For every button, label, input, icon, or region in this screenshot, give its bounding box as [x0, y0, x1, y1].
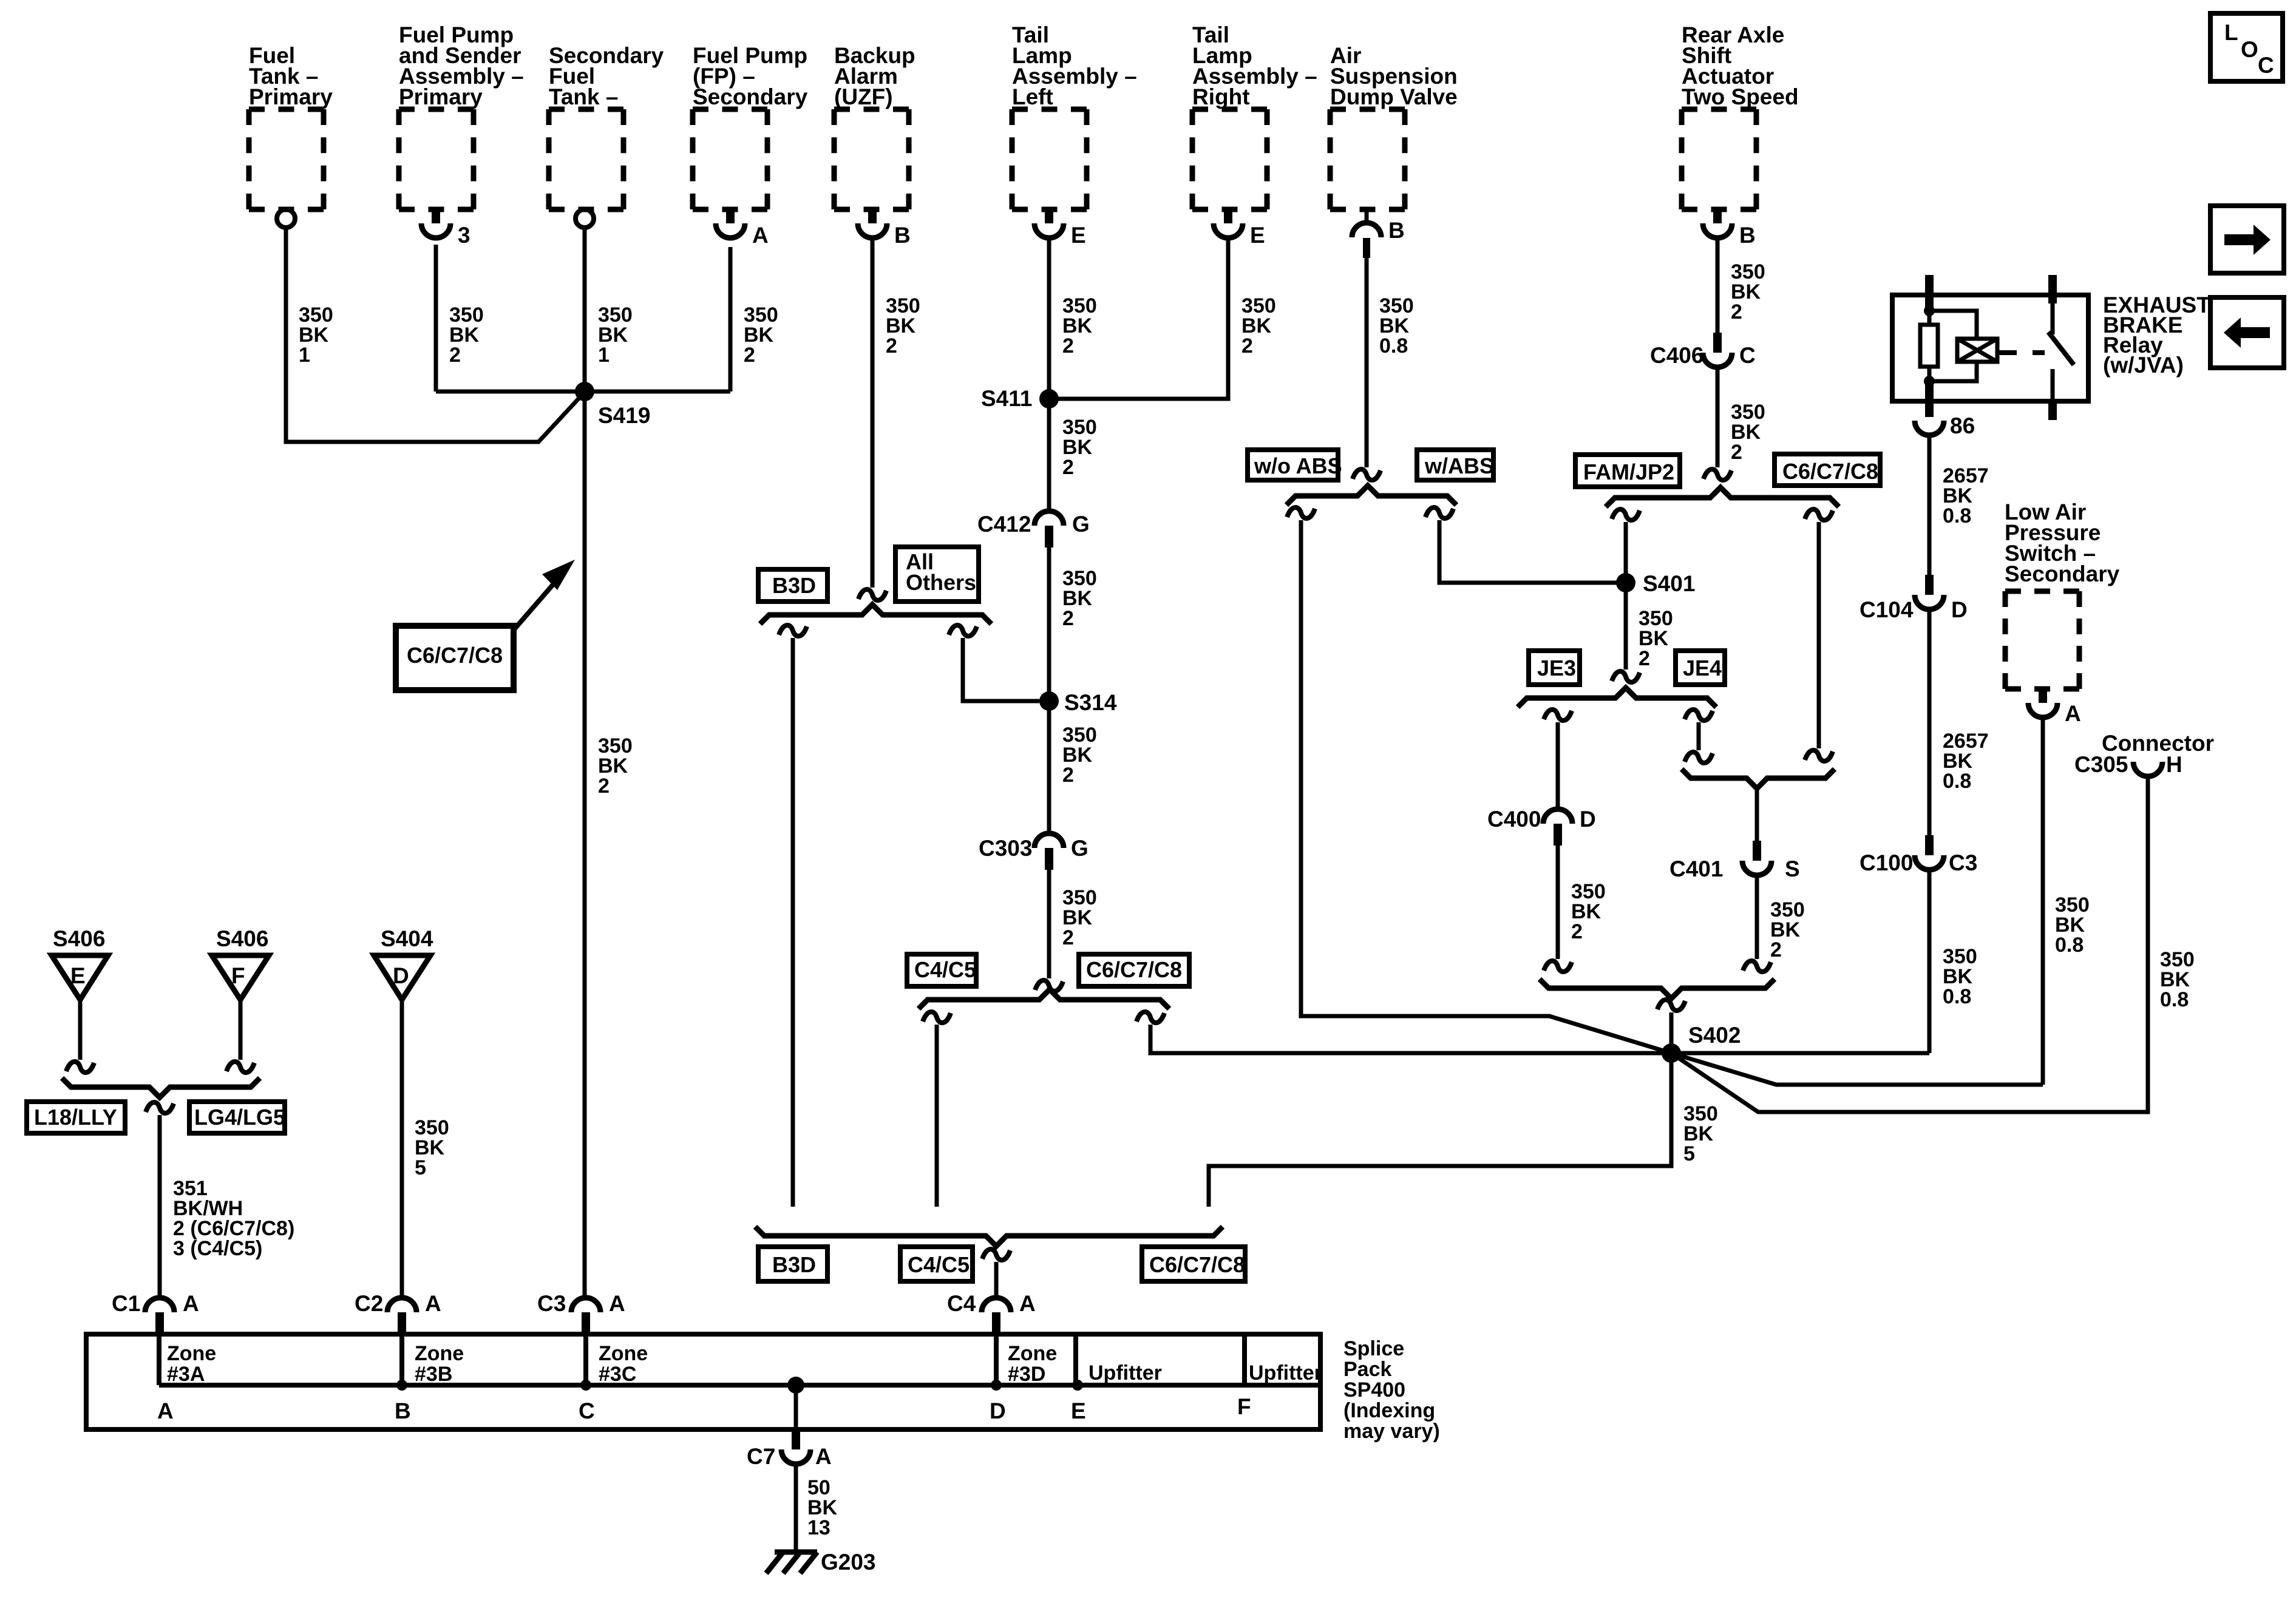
svg-text:0.8: 0.8: [1943, 985, 1971, 1008]
svg-text:2: 2: [1731, 300, 1742, 324]
wire 350 BK 0.8 air dump valve: [1365, 258, 1369, 467]
svg-text:C2: C2: [355, 1291, 383, 1316]
svg-text:A: A: [2065, 701, 2081, 726]
pin B of Backup Alarm (UZF): [868, 209, 877, 223]
svg-text:C6/C7/C8: C6/C7/C8: [407, 643, 503, 668]
splice S419: [575, 382, 594, 401]
squiggle C6/C7/C8 branch: [1136, 1012, 1164, 1023]
wire to C4: [994, 1262, 999, 1299]
triangle S406 E: [52, 955, 108, 1000]
wire S314 to C303: [1047, 701, 1051, 833]
inline connector C4: [982, 1298, 1011, 1312]
pin of Fuel Tank - Primary: [277, 209, 295, 228]
squiggle C4 feed: [982, 1249, 1010, 1260]
splice pack partition: [157, 1334, 161, 1385]
pin of Secondary Fuel Tank: [576, 209, 594, 228]
squiggle L18 branch: [146, 1102, 174, 1113]
svg-text:E: E: [1071, 1398, 1086, 1423]
wire FAM/JP2 branch: [1624, 522, 1628, 670]
svg-text:w/ABS: w/ABS: [1424, 453, 1494, 478]
svg-text:E: E: [70, 963, 86, 988]
svg-text:2: 2: [1571, 920, 1583, 943]
svg-text:C4/C5: C4/C5: [914, 957, 976, 982]
svg-text:#3C: #3C: [599, 1363, 636, 1386]
relay resistor: [1927, 311, 1932, 325]
wire C104 to C100: [1927, 609, 1932, 835]
relay EXHAUST BRAKE (w/JVA) box: [1892, 295, 2088, 401]
svg-text:C303: C303: [979, 836, 1032, 861]
pin B of Air Suspension Dump Valve: [1365, 209, 1369, 223]
svg-text:C: C: [2258, 53, 2274, 78]
splice S401: [1616, 573, 1635, 592]
svg-text:0.8: 0.8: [1943, 770, 1971, 793]
svg-text:C3: C3: [537, 1291, 566, 1316]
svg-text:Tank –: Tank –: [549, 84, 618, 109]
relay bottom-left pin: [1925, 381, 1934, 417]
brace merge S406: [62, 1078, 260, 1097]
svg-text:3: 3: [458, 223, 470, 248]
svg-text:2: 2: [598, 775, 610, 798]
wire C406 down: [1716, 367, 1720, 467]
svg-text:2: 2: [1731, 441, 1742, 464]
inline connector C412: [1034, 511, 1064, 526]
svg-text:JE4: JE4: [1683, 656, 1722, 680]
svg-text:C412: C412: [977, 512, 1031, 537]
left-arrow box: [2210, 297, 2284, 368]
svg-text:D: D: [990, 1398, 1006, 1423]
svg-text:2: 2: [1639, 647, 1650, 670]
wire 350 BK 1 fuel tank primary: [286, 228, 585, 442]
inline connector C406: [1713, 333, 1722, 353]
splice pack partition: [1242, 1334, 1247, 1385]
svg-text:Zone: Zone: [1008, 1342, 1057, 1365]
brace split JE3/JE4: [1518, 688, 1716, 707]
wire 350 BK 5 from S402: [1209, 1053, 1671, 1207]
wire 350 BK 2 rear axle: [1716, 239, 1720, 333]
svg-text:S314: S314: [1064, 690, 1117, 715]
inline connector C2: [387, 1298, 416, 1312]
svg-text:A: A: [157, 1398, 174, 1423]
svg-text:A: A: [815, 1444, 832, 1469]
brace merge JE4 + C6/C7/C8: [1682, 769, 1835, 788]
pin B of Rear Axle Shift Actuator Two Speed: [1713, 209, 1722, 223]
inline connector C401: [1753, 841, 1761, 861]
connector C305: [2133, 762, 2162, 776]
wire end squiggle: [1685, 752, 1713, 763]
inline connector C303: [1034, 833, 1064, 848]
connector box Air Suspension Dump Valve: [1330, 107, 1405, 112]
svg-text:C: C: [1739, 343, 1756, 368]
relay coil node bottom: [1924, 376, 1935, 387]
svg-text:Primary: Primary: [249, 84, 333, 109]
svg-text:C7: C7: [747, 1444, 775, 1469]
squiggle S402 feed: [1657, 1000, 1685, 1011]
svg-text:B: B: [1739, 223, 1756, 248]
svg-text:Upfitter: Upfitter: [1089, 1361, 1162, 1385]
relay coil loop: [1929, 311, 1977, 339]
triangle S404 D: [374, 955, 430, 1000]
svg-text:2: 2: [1062, 456, 1074, 479]
svg-text:C1: C1: [112, 1291, 140, 1316]
svg-text:B: B: [894, 223, 911, 248]
pin A of Fuel Pump (FP) - Secondary: [726, 209, 735, 223]
svg-text:S411: S411: [981, 386, 1032, 411]
relay dashed link: [1999, 350, 2045, 355]
svg-text:S406: S406: [216, 926, 268, 951]
svg-text:A: A: [609, 1291, 625, 1316]
wire 50 BK 13: [794, 1464, 798, 1550]
svg-text:Others: Others: [906, 570, 976, 595]
LG4/LG5 option box: [189, 1102, 285, 1133]
wire C7 drop: [794, 1385, 798, 1429]
squiggle JE4 branch: [1685, 710, 1713, 720]
svg-text:B3D: B3D: [772, 1252, 816, 1277]
svg-text:C: C: [579, 1398, 595, 1423]
svg-text:E: E: [1071, 223, 1086, 248]
svg-text:2: 2: [1062, 334, 1074, 358]
C4/C5 option box: [907, 954, 976, 986]
svg-text:O: O: [2241, 37, 2258, 62]
wire w/o ABS branch: [1301, 520, 1671, 1053]
svg-text:C406: C406: [1650, 343, 1703, 368]
triangle S406 F: [212, 955, 269, 1000]
svg-text:0.8: 0.8: [2055, 934, 2084, 957]
wire All-Others branch: [963, 638, 1039, 701]
svg-text:FAM/JP2: FAM/JP2: [1583, 459, 1674, 484]
wire to S402: [1669, 1012, 1674, 1053]
connector box Tail Lamp Assembly - Right: [1192, 107, 1267, 112]
svg-text:C100: C100: [1860, 850, 1913, 875]
wire S406 F: [239, 1000, 243, 1060]
svg-text:C4/C5: C4/C5: [908, 1252, 970, 1277]
svg-text:Two Speed: Two Speed: [1682, 84, 1799, 109]
svg-text:C6/C7/C8: C6/C7/C8: [1782, 459, 1878, 484]
connector box Fuel Pump (FP) - Secondary: [693, 107, 767, 112]
svg-text:1: 1: [299, 344, 310, 367]
wire C4/C5 branch: [935, 1025, 939, 1207]
svg-text:(UZF): (UZF): [834, 84, 893, 109]
svg-text:A: A: [425, 1291, 441, 1316]
C6/C7/C8 option box: [1775, 454, 1880, 486]
svg-text:S406: S406: [53, 926, 105, 951]
wire S402 to C305: [1671, 1053, 2148, 1112]
pin 3 of Fuel Pump and Sender Assembly - Primary: [432, 209, 440, 223]
svg-text:Pack: Pack: [1343, 1358, 1391, 1381]
svg-text:E: E: [1250, 223, 1265, 248]
C4/C5 option box: [900, 1247, 973, 1281]
inline connector C3: [571, 1298, 600, 1312]
svg-text:C6/C7/C8: C6/C7/C8: [1086, 957, 1182, 982]
svg-text:#3B: #3B: [415, 1363, 452, 1386]
svg-text:86: 86: [1950, 413, 1975, 438]
wire JE4 branch: [1697, 722, 1701, 750]
brace split FAM/JP2 - C6/C7/C8: [1606, 487, 1839, 507]
svg-text:5: 5: [1683, 1142, 1695, 1165]
relay pin 86 connector: [1915, 421, 1944, 435]
svg-text:JE3: JE3: [1537, 656, 1576, 680]
wire S419 horizontal: [436, 390, 730, 394]
svg-text:L18/LLY: L18/LLY: [34, 1105, 117, 1130]
squiggle C4/C5 branch: [923, 1012, 951, 1023]
svg-text:#3A: #3A: [167, 1363, 205, 1386]
wire C6/C7/C8 right branch: [1817, 522, 1821, 748]
svg-text:F: F: [231, 963, 245, 988]
right-arrow box: [2210, 206, 2284, 273]
svg-text:0.8: 0.8: [2160, 988, 2189, 1011]
svg-text:C401: C401: [1669, 856, 1723, 881]
svg-text:A: A: [1019, 1291, 1036, 1316]
wire end squiggle: [1612, 671, 1640, 682]
squiggle w/o ABS branch: [1287, 507, 1315, 518]
svg-text:2: 2: [1062, 926, 1074, 949]
wire to C401: [1755, 788, 1759, 841]
wire C6/C7/C8 branch: [1150, 1025, 1671, 1053]
svg-text:SP400: SP400: [1343, 1378, 1405, 1402]
svg-text:Zone: Zone: [167, 1342, 216, 1365]
B3D option box: [758, 1247, 827, 1281]
svg-text:C4: C4: [947, 1291, 976, 1316]
svg-text:w/o ABS: w/o ABS: [1254, 453, 1342, 478]
svg-text:F: F: [1237, 1394, 1251, 1419]
wire end squiggle: [1703, 469, 1731, 480]
wire end squiggle: [226, 1062, 254, 1073]
splice pack partition: [399, 1334, 404, 1385]
inline connector C104: [1925, 575, 1934, 595]
brace split ABS options: [1286, 486, 1456, 505]
wire C100 to S402: [1927, 870, 1932, 1053]
svg-text:may vary): may vary): [1343, 1420, 1440, 1443]
splice S402: [1662, 1043, 1681, 1063]
svg-text:C6/C7/C8: C6/C7/C8: [1149, 1252, 1245, 1277]
svg-text:S401: S401: [1643, 571, 1695, 596]
connector box Fuel Pump and Sender Assembly - Primary: [399, 107, 474, 112]
svg-text:S402: S402: [1688, 1023, 1741, 1048]
svg-text:Secondary: Secondary: [2005, 561, 2120, 586]
squiggle B3D branch: [779, 625, 807, 636]
B3D option box: [758, 569, 827, 602]
wire end squiggle: [1544, 961, 1572, 972]
wire C412 to S314: [1047, 547, 1051, 701]
splice S314: [1039, 691, 1059, 711]
splice S411: [1039, 389, 1059, 408]
splice pack inner bus: [159, 1383, 1320, 1388]
svg-text:Zone: Zone: [415, 1342, 464, 1365]
JE4 option box: [1676, 651, 1725, 685]
svg-text:B3D: B3D: [772, 573, 816, 598]
squiggle C6/C7/C8 branch: [1805, 509, 1833, 520]
svg-text:H: H: [2166, 752, 2182, 777]
relay bottom-right pin: [2048, 401, 2057, 420]
connector box Backup Alarm (UZF): [834, 107, 909, 112]
splice pack partition: [994, 1334, 999, 1385]
wire C400 down: [1556, 846, 1560, 959]
svg-text:1: 1: [598, 344, 610, 367]
svg-text:A: A: [183, 1291, 199, 1316]
wire end squiggle: [1035, 980, 1063, 991]
svg-text:Primary: Primary: [399, 84, 483, 109]
svg-text:2: 2: [886, 334, 897, 358]
L18/LLY option box: [27, 1102, 125, 1133]
svg-text:G203: G203: [821, 1550, 876, 1575]
brace merge to S402: [1540, 979, 1775, 998]
svg-text:S404: S404: [381, 926, 433, 951]
svg-text:S: S: [1785, 856, 1800, 881]
wire end squiggle: [1805, 750, 1833, 761]
svg-text:D: D: [1580, 807, 1596, 832]
wire 350 BK 2 fuel pump secondary: [729, 247, 733, 392]
connector box Tail Lamp Assembly - Left: [1012, 107, 1087, 112]
w/ABS option box: [1417, 450, 1493, 480]
wire 350 BK 2 tail lamp right: [1049, 239, 1228, 399]
brace merge B3D/C4C5/C6C7C8: [755, 1227, 1223, 1246]
svg-text:5: 5: [415, 1156, 426, 1179]
svg-text:A: A: [752, 223, 769, 248]
wire 350 BK 2 backup alarm: [871, 239, 875, 588]
svg-text:2: 2: [1770, 938, 1782, 961]
ground G203: [775, 1550, 817, 1555]
pin A of pressure switch: [2039, 689, 2047, 703]
svg-text:G: G: [1071, 836, 1089, 861]
svg-text:B: B: [1388, 218, 1405, 243]
svg-text:B: B: [395, 1398, 411, 1423]
inline connector C100: [1925, 835, 1934, 855]
pin E of Tail Lamp Assembly - Left: [1045, 209, 1053, 223]
svg-text:L: L: [2224, 20, 2238, 45]
inline connector C7: [792, 1431, 800, 1449]
svg-text:D: D: [1951, 597, 1968, 622]
wire end squiggle: [1353, 469, 1381, 480]
svg-text:3 (C4/C5): 3 (C4/C5): [173, 1237, 262, 1260]
svg-text:13: 13: [807, 1516, 830, 1539]
svg-text:C400: C400: [1487, 807, 1541, 832]
svg-text:(Indexing: (Indexing: [1343, 1399, 1435, 1422]
wire S402 to C100 riser: [1671, 1051, 1929, 1056]
wire 350 BK 1 secondary fuel tank: [583, 228, 587, 392]
brace split C4/C5 - C6/C7/C8: [919, 989, 1169, 1009]
svg-text:C305: C305: [2074, 752, 2128, 777]
wire end squiggle: [66, 1062, 94, 1073]
svg-text:2: 2: [449, 344, 461, 367]
C6/C7/C8 option box: [1142, 1247, 1245, 1281]
svg-text:Secondary: Secondary: [693, 84, 808, 109]
squiggle All-Others branch: [949, 625, 977, 636]
svg-text:LG4/LG5: LG4/LG5: [194, 1105, 285, 1130]
svg-text:Right: Right: [1192, 84, 1250, 109]
wire C303 down: [1047, 870, 1051, 978]
All Others option box: [895, 547, 979, 602]
wire to C1: [158, 1115, 162, 1299]
inline connector C400: [1543, 809, 1572, 824]
svg-text:C3: C3: [1949, 850, 1977, 875]
node C7 junction: [787, 1377, 804, 1394]
wire 350 BK 2 tail lamp left: [1047, 239, 1051, 511]
wire 2657 BK 0.8: [1927, 435, 1932, 575]
relay top-left pin: [1925, 275, 1934, 311]
svg-text:0.8: 0.8: [1943, 504, 1971, 527]
svg-text:Left: Left: [1012, 84, 1053, 109]
FAM/JP2 option box: [1575, 455, 1680, 487]
relay coil node top: [1924, 305, 1935, 316]
inline connector C1: [145, 1298, 174, 1312]
C6/C7/C8 option box: [1079, 954, 1189, 986]
svg-text:Splice: Splice: [1343, 1337, 1404, 1360]
svg-text:Upfitter: Upfitter: [1249, 1361, 1322, 1385]
svg-text:2: 2: [744, 344, 755, 367]
svg-text:0.8: 0.8: [1379, 334, 1408, 358]
connector box Fuel Tank - Primary: [249, 107, 324, 112]
LOC legend box: [2210, 13, 2283, 81]
wire C305 down: [2146, 776, 2150, 1112]
C6/C7/C8 callout box: [396, 626, 514, 690]
wire end squiggle: [858, 589, 886, 600]
connector box Rear Axle Shift Actuator Two Speed: [1682, 107, 1756, 112]
wire pressure switch down: [2041, 718, 2045, 1085]
svg-text:C104: C104: [1860, 597, 1914, 622]
wire 350 BK 2 fuel pump primary: [434, 245, 438, 392]
arrow to wire: [514, 571, 565, 630]
svg-text:Dump Valve: Dump Valve: [1330, 84, 1458, 109]
wire C401 down: [1755, 875, 1759, 959]
JE3 option box: [1529, 651, 1580, 685]
wire B3D branch: [791, 638, 795, 1207]
splice pack partition: [1073, 1334, 1078, 1385]
svg-text:Zone: Zone: [599, 1342, 648, 1365]
squiggle JE3 branch: [1544, 710, 1572, 720]
svg-text:2: 2: [1062, 607, 1074, 630]
splice pack SP400 box: [86, 1334, 1320, 1429]
wire S406 E: [78, 1000, 83, 1060]
relay switch blade: [2051, 303, 2055, 334]
splice pack partition: [583, 1334, 588, 1385]
wire S402 to pressure switch: [1671, 1053, 2043, 1085]
connector box Secondary Fuel Tank: [549, 107, 623, 112]
wire secondary tank to C3: [583, 392, 587, 1299]
relay solenoid box: [1957, 339, 1997, 362]
wire JE3 branch to C400: [1556, 722, 1560, 809]
relay switch contact: [2051, 369, 2055, 401]
wire S404 to C2: [400, 1000, 404, 1299]
svg-text:2: 2: [1062, 764, 1074, 787]
svg-text:2: 2: [1241, 334, 1253, 358]
svg-text:#3D: #3D: [1008, 1363, 1045, 1386]
brace split B3D / All Others: [760, 605, 991, 624]
component box Low Air Pressure Switch: [2005, 589, 2079, 594]
wire end squiggle: [1743, 961, 1771, 972]
wire w/ABS branch: [1439, 520, 1626, 583]
svg-text:D: D: [393, 963, 409, 988]
relay top-right pin: [2048, 275, 2057, 303]
w/o ABS option box: [1248, 450, 1338, 480]
svg-text:(w/JVA): (w/JVA): [2103, 353, 2184, 378]
svg-text:S419: S419: [598, 403, 650, 428]
svg-text:G: G: [1072, 512, 1090, 537]
squiggle w/ABS branch: [1425, 507, 1453, 518]
pin E of Tail Lamp Assembly - Right: [1224, 209, 1232, 223]
squiggle FAM/JP2 branch: [1612, 509, 1640, 520]
